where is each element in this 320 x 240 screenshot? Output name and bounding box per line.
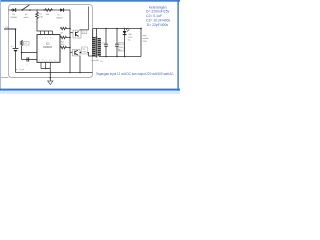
transformer T1 core xyxy=(95,37,98,58)
svg-text:T1: T1 xyxy=(83,32,85,34)
input wire 12V xyxy=(4,29,16,48)
svg-text:220v: 220v xyxy=(143,41,147,43)
diode D2 xyxy=(60,8,63,12)
page footer blue band xyxy=(0,89,180,91)
svg-text:0v: 0v xyxy=(101,61,103,63)
node C3 top xyxy=(105,28,107,30)
output top rail xyxy=(93,28,141,30)
label C4 box xyxy=(118,43,124,51)
svg-text:trafo 5A: trafo 5A xyxy=(92,59,100,62)
svg-text:7 8 9 10 11: 7 8 9 10 11 xyxy=(39,60,57,62)
wire Q2 to transformer bottom xyxy=(88,52,93,56)
transformer T1 secondary winding xyxy=(98,39,101,55)
label T1 box xyxy=(82,30,87,33)
battery minus marker xyxy=(16,68,24,71)
IC bottom pin stubs xyxy=(41,62,50,68)
wire secondary bottom lead xyxy=(98,56,100,57)
resistor R4 xyxy=(60,36,70,38)
wire +12V rail corner down xyxy=(69,10,71,73)
wire rail to Q2 base xyxy=(70,51,73,53)
svg-text:IN4007: IN4007 xyxy=(56,17,64,19)
resistor R3 (to Q1 base) xyxy=(60,27,70,29)
IC U1 CD4047 xyxy=(37,35,60,63)
node C4 top xyxy=(116,28,118,30)
switch S1 xyxy=(22,5,29,10)
transistor Q1 xyxy=(73,30,81,38)
transformer T1 primary winding xyxy=(92,38,95,56)
node output corner top xyxy=(140,28,142,30)
node top of R1 xyxy=(36,9,38,11)
node pin bus xyxy=(45,68,46,69)
wire R1 to IC pins xyxy=(37,20,53,32)
wire IC bottom pins bus xyxy=(41,68,50,70)
IC top pin stubs xyxy=(41,31,53,35)
divider line left of frame xyxy=(0,77,9,79)
node C4 bottom xyxy=(116,56,118,58)
transistor Q2 xyxy=(73,49,81,56)
svg-text:kontak: kontak xyxy=(143,37,149,40)
node rail R3 xyxy=(69,28,71,30)
svg-text:10K: 10K xyxy=(39,17,43,19)
notes text block xyxy=(146,5,171,27)
wire between xyxy=(21,53,23,60)
wire rail to Q1 base xyxy=(70,32,73,34)
label R4 xyxy=(61,41,65,46)
node Q2 output xyxy=(80,52,82,54)
svg-text:saklar: saklar xyxy=(23,16,29,19)
node divider crossing xyxy=(50,77,52,79)
thermistor R5 (vertical zigzag left) xyxy=(20,40,22,53)
label R1 xyxy=(39,14,43,19)
svg-text:123456: 123456 xyxy=(40,37,56,39)
battery B1 xyxy=(13,48,19,50)
node input corner xyxy=(15,28,17,30)
node rail R6 xyxy=(69,47,71,49)
label LED xyxy=(128,34,132,41)
node LED bottom xyxy=(124,56,126,58)
ground bus wire xyxy=(16,72,93,74)
page border left (blue) xyxy=(0,0,2,91)
node C1 top xyxy=(21,52,23,54)
svg-text:CD4047: CD4047 xyxy=(43,46,53,49)
capacitor C4 xyxy=(116,29,118,57)
svg-text:▾: ▾ xyxy=(16,68,17,71)
wire to ground xyxy=(49,69,51,82)
svg-text:Tegangan input 12 volt DC dan: Tegangan input 12 volt DC dan output 220… xyxy=(96,72,174,76)
label D2 xyxy=(56,14,64,19)
wire battery to ground bus xyxy=(15,51,17,73)
capacitor C1 plates xyxy=(27,57,29,61)
svg-text:IN4007: IN4007 xyxy=(11,17,19,19)
svg-text:C3= 10 nF/400v: C3= 10 nF/400v xyxy=(146,19,171,23)
resistor R1 (vertical) xyxy=(36,11,39,20)
svg-text:3055: 3055 xyxy=(82,52,86,54)
wire primary top to output rail xyxy=(92,29,94,38)
node C3 bottom xyxy=(105,56,107,58)
node Q2 emitter bus xyxy=(79,72,80,73)
node rail R4 xyxy=(69,37,71,39)
svg-text:D= 2200uF/25v: D= 2200uF/25v xyxy=(146,10,170,14)
wire secondary top lead xyxy=(95,29,97,38)
label box C1 xyxy=(24,41,29,45)
wire to IC pin left upper xyxy=(22,52,38,54)
svg-text:D= 22pF/400v: D= 22pF/400v xyxy=(147,23,169,27)
capacitor C3 xyxy=(105,29,107,57)
resistor R2 (horizontal, top rail) xyxy=(44,9,53,12)
ground symbol xyxy=(48,81,53,85)
page border right (blue) xyxy=(177,0,178,92)
page footer pale blue wash xyxy=(0,91,180,94)
label output socket xyxy=(143,34,149,43)
label D1 xyxy=(11,14,19,19)
wire top rail xyxy=(9,9,71,11)
resistor R6 xyxy=(60,46,70,48)
LED D3 xyxy=(124,29,126,31)
page border top (blue) xyxy=(0,0,180,2)
node rail bus xyxy=(69,72,70,73)
output terminal wire xyxy=(140,29,142,57)
label S1 xyxy=(23,14,29,19)
background xyxy=(0,0,180,94)
node LED top xyxy=(124,28,126,30)
diode D1 xyxy=(13,8,16,12)
label TIP box xyxy=(82,47,88,54)
svg-text:C2= 0.1uF: C2= 0.1uF xyxy=(146,14,162,18)
node J1 xyxy=(11,9,12,10)
wire Q1 top to riser xyxy=(80,7,89,30)
node bus crossing xyxy=(50,72,52,74)
wire to IC pin left lower xyxy=(22,59,38,61)
schematic frame (rounded) xyxy=(9,5,93,78)
node R2 left xyxy=(43,9,44,10)
output bottom rail xyxy=(99,56,141,58)
wire Q2 emitter to bus xyxy=(79,56,81,73)
svg-text:0 v dc: 0 v dc xyxy=(19,69,24,71)
